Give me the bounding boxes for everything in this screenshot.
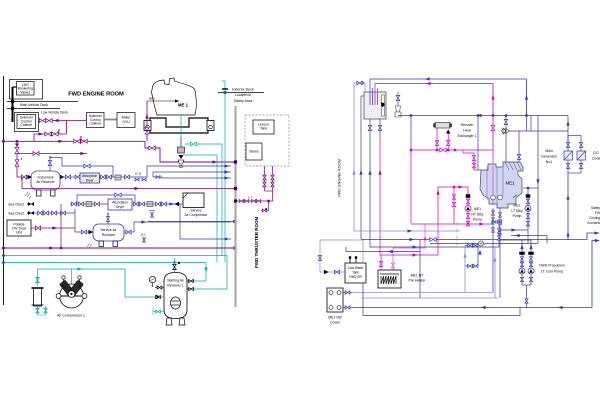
receiver gauge xyxy=(149,276,155,282)
svg-text:Cool Water: Cool Water xyxy=(348,266,365,270)
wire potable unit line xyxy=(31,227,75,229)
svg-text:Safety Area: Safety Area xyxy=(234,99,253,103)
box Boiler GVU xyxy=(117,113,135,128)
compressor suction valve xyxy=(36,277,40,282)
wire blue drop x526 xyxy=(526,79,528,116)
svg-text:Receiver: Receiver xyxy=(102,233,116,237)
wire magenta loop y150 xyxy=(411,149,493,151)
hx pump xyxy=(446,130,451,134)
wire propulsion suction up arrows xyxy=(478,250,481,255)
expansion tank xyxy=(364,92,386,119)
generator cooler columns xyxy=(567,116,569,143)
pumps FWD Propulsion LT Cool xyxy=(499,239,531,241)
wire engine right xyxy=(523,187,538,189)
receiver left bottom valve xyxy=(153,311,164,313)
wire blue return y251.5 xyxy=(346,247,420,252)
svg-text:Cabinet: Cabinet xyxy=(21,123,32,127)
plate cooler ME1 SW Cooler xyxy=(327,288,343,312)
svg-text:Air Compressor 1: Air Compressor 1 xyxy=(57,314,85,318)
drain funnel xyxy=(178,160,184,164)
wire row y153 to dryers xyxy=(17,153,87,155)
svg-text:Low Vehicle Deck: Low Vehicle Deck xyxy=(41,110,68,114)
boundary dash-dot xyxy=(456,222,458,247)
dashed safety area box xyxy=(245,115,289,166)
wire purple main header y141 xyxy=(2,140,146,142)
wire thermo valve column x506 xyxy=(505,116,507,164)
pump ME1 HT Stby xyxy=(467,187,469,224)
wire purple row y221 xyxy=(148,221,236,223)
svg-text:Main: Main xyxy=(545,149,553,153)
svg-text:FWD ER: FWD ER xyxy=(349,275,362,279)
wire compressor outlet xyxy=(170,203,183,205)
receiver top valve xyxy=(174,258,176,273)
svg-text:FWD ENGINE ROOM: FWD ENGINE ROOM xyxy=(337,159,342,197)
svg-text:Heat: Heat xyxy=(463,129,470,133)
receiver top valve xyxy=(49,158,51,171)
heat exchanger Recover Heat Exchanger 1 xyxy=(435,123,450,129)
wire thruster valves col1 xyxy=(264,166,266,191)
svg-text:Cooler: Cooler xyxy=(592,157,600,161)
receiver manhole xyxy=(171,297,181,309)
svg-text:Air Receiver: Air Receiver xyxy=(36,180,55,184)
svg-text:DO: DO xyxy=(593,151,599,155)
svg-text:Dryer: Dryer xyxy=(116,205,125,209)
wire pink vert x425 xyxy=(393,224,425,262)
wire cyan vertical x222 xyxy=(221,144,223,256)
svg-text:Kondens: Kondens xyxy=(587,221,600,225)
svg-text:FWD ENGINE ROOM: FWD ENGINE ROOM xyxy=(68,92,124,98)
wire cyan compressor discharge xyxy=(38,269,154,297)
engine side mounts xyxy=(144,121,151,131)
svg-text:Tank: Tank xyxy=(260,127,267,131)
svg-text:Dryer: Dryer xyxy=(86,178,95,182)
engine internal pipes xyxy=(486,166,488,200)
svg-text:GVU: GVU xyxy=(122,120,130,124)
wire pump discharge xyxy=(526,285,528,308)
svg-text:ME1: ME1 xyxy=(474,207,481,211)
wire thruster header y201 xyxy=(236,200,273,202)
wire periwinkle bottom y292 xyxy=(352,292,493,294)
wire cyan header y262 xyxy=(2,262,207,264)
wire magenta y224 xyxy=(411,223,494,225)
wire thermo valve branch y131 xyxy=(509,130,568,132)
receiver drain squiggle xyxy=(25,192,31,199)
wire magenta vert x411 down xyxy=(410,150,412,223)
receiver feet xyxy=(37,190,42,196)
wire blue vert x420 xyxy=(419,240,421,299)
left border line xyxy=(3,76,5,305)
cooler outlet valves xyxy=(343,292,352,294)
svg-text:Pump: Pump xyxy=(473,218,482,222)
svg-text:Instrument: Instrument xyxy=(37,175,53,179)
svg-text:ME1: ME1 xyxy=(505,181,515,186)
svg-text:HT Stby: HT Stby xyxy=(471,212,483,216)
service receiver feet xyxy=(99,241,104,247)
svg-text:Cabinet: Cabinet xyxy=(90,122,101,126)
service receiver inlet xyxy=(75,231,93,233)
svg-text:Main Vehicle Deck: Main Vehicle Deck xyxy=(20,103,48,107)
valve stack x499 xyxy=(498,225,500,247)
hx Main Generator cooler 1 xyxy=(564,151,573,160)
wire sea chest service line xyxy=(34,212,75,214)
wire cabinet2 to boiler GVU xyxy=(104,119,117,121)
wire cyan engine air line right xyxy=(185,143,222,145)
aux relief x152 xyxy=(151,213,154,217)
receiver feet xyxy=(166,318,172,325)
wire magenta top header y83.5 xyxy=(375,83,493,85)
wire cyan drop to receiver right lower xyxy=(194,256,227,290)
wire periwinkle bottom y298 xyxy=(361,297,498,299)
box Absorption Dryer 1 xyxy=(80,173,100,183)
svg-text:Generator: Generator xyxy=(541,155,558,159)
wall junction y162 xyxy=(234,160,237,163)
box ME1 HT Pre Heater xyxy=(378,270,401,288)
wire cyan header y255 xyxy=(2,255,228,257)
svg-text:Sea Chest: Sea Chest xyxy=(8,203,23,207)
svg-text:Air Compressor: Air Compressor xyxy=(185,213,209,217)
wire purple vert x61 xyxy=(60,204,62,248)
receiver inlet xyxy=(17,176,31,178)
pump ME1 LT Stby xyxy=(527,188,529,230)
svg-text:Service Air: Service Air xyxy=(100,228,117,232)
relief funnel column xyxy=(397,92,399,116)
svg-text:10 1: 10 1 xyxy=(140,233,146,237)
wire blue bottom y315 xyxy=(363,283,520,316)
wire bypass column x454 xyxy=(453,187,455,224)
engine ME1 left outline xyxy=(152,78,197,115)
svg-text:FWD THRUSTER ROOM: FWD THRUSTER ROOM xyxy=(254,217,259,268)
engine bottom pipes xyxy=(492,208,494,293)
svg-text:Safety: Safety xyxy=(591,206,600,210)
box Stores xyxy=(246,143,262,160)
air filter tank xyxy=(34,288,42,306)
service receiver drain xyxy=(87,243,92,248)
hx drop valves xyxy=(436,128,438,150)
svg-text:LT Stby: LT Stby xyxy=(511,209,523,213)
wire cyan exterior deck vent xyxy=(222,81,225,263)
wire blue y239 segment xyxy=(180,204,231,239)
box Solenoid Control Cabinet 2 xyxy=(87,113,105,128)
wire purple header steps down to thruster room xyxy=(145,141,236,162)
wire purple row y134 xyxy=(34,133,67,135)
wire to wall arrows row1 xyxy=(147,166,231,177)
wire engine drain down xyxy=(180,115,182,147)
wire blue bottom y308 xyxy=(352,307,592,309)
hx DO cooler box xyxy=(577,151,586,160)
wire magenta engine left header xyxy=(438,186,468,188)
svg-text:Pre Heater: Pre Heater xyxy=(409,279,427,283)
LNG bunkering container box xyxy=(10,80,43,100)
wire blue left vertical x361 xyxy=(360,96,362,239)
service receiver top valve xyxy=(107,215,109,224)
wire purple row y248 xyxy=(2,247,237,249)
receiver left check inlet xyxy=(153,296,164,298)
svg-text:Receiver 1: Receiver 1 xyxy=(167,284,183,288)
receiver right nozzle 1 xyxy=(187,280,194,282)
receiver left nozzle 1 xyxy=(155,287,164,289)
svg-text:No1: No1 xyxy=(546,160,552,164)
tank Starting Air Receiver 1 xyxy=(164,273,187,319)
3way valve and bowties mid xyxy=(478,241,483,246)
wire cyan line y155 xyxy=(183,154,217,156)
tank Service Air Receiver xyxy=(93,224,124,241)
wall fwd thruster room xyxy=(234,106,236,307)
svg-text:10 10: 10 10 xyxy=(135,172,142,176)
svg-text:Cooling: Cooling xyxy=(589,216,600,220)
svg-text:9 7: 9 7 xyxy=(248,196,252,200)
Main Vehicle Deck line xyxy=(7,101,78,103)
wire dryer1 inlet xyxy=(75,176,80,178)
drain filter box xyxy=(178,147,185,153)
wire blue drop x411 xyxy=(410,116,412,151)
drain check valve xyxy=(179,155,184,159)
service receiver outlet xyxy=(124,231,134,233)
box LNG Bunkering Valves xyxy=(17,82,35,96)
instrument air feed vertical xyxy=(16,141,18,177)
box Absorption Dryer 2 xyxy=(108,199,132,210)
svg-text:ME1 HT: ME1 HT xyxy=(411,274,425,278)
wire thruster join y191 xyxy=(265,190,273,192)
wire magenta vert x438 xyxy=(437,187,439,255)
svg-text:MDO: MDO xyxy=(149,97,155,101)
dryer1 bypass loop xyxy=(50,158,113,178)
wire magenta y255 xyxy=(380,254,438,256)
wire generator return xyxy=(567,173,569,240)
svg-text:Exchanger 1: Exchanger 1 xyxy=(457,134,476,138)
tank level gauge xyxy=(382,95,385,116)
wire mid headers with arrows xyxy=(354,230,460,232)
wire vertical arrows bundle xyxy=(352,170,355,175)
svg-text:Cooler: Cooler xyxy=(330,321,341,325)
svg-text:LT Cool Pump: LT Cool Pump xyxy=(541,270,563,274)
wire magenta drop to engine left xyxy=(463,150,481,170)
wire cool water tank feed xyxy=(320,240,345,272)
wire tank drain valves xyxy=(369,119,371,135)
tank top fittings xyxy=(349,257,351,263)
air compressor 1 icon xyxy=(71,269,73,285)
svg-text:Sea Chest: Sea Chest xyxy=(8,212,23,216)
svg-text:Recover: Recover xyxy=(461,123,474,127)
wire right edge vertical xyxy=(592,241,599,308)
wire purple MDO supply vertical xyxy=(146,101,148,141)
wire solenoid1 to solenoid2 xyxy=(39,120,87,122)
svg-text:ME1 SW: ME1 SW xyxy=(328,316,342,320)
svg-text:Exterior Deck: Exterior Deck xyxy=(232,88,254,92)
tank vent valve xyxy=(354,83,365,92)
engine top connections xyxy=(477,116,479,171)
filter drain valves xyxy=(36,308,39,313)
svg-text:Located in: Located in xyxy=(235,93,252,97)
svg-text:FW: FW xyxy=(595,211,600,215)
svg-text:Tank: Tank xyxy=(352,271,359,275)
cooler outlet valves xyxy=(567,160,569,173)
box Solenoid Control Cabinet 1 xyxy=(17,115,36,129)
svg-text:Unit: Unit xyxy=(16,230,22,234)
wire magenta drop x493 xyxy=(492,84,494,151)
svg-text:Starting Air: Starting Air xyxy=(167,279,184,283)
engine base xyxy=(150,118,208,133)
service air bypass xyxy=(77,195,135,204)
wire service dryer row xyxy=(70,203,180,205)
preheater feed valves xyxy=(380,255,382,270)
tank Instrument Air Receiver xyxy=(31,171,60,190)
svg-text:Valves: Valves xyxy=(20,90,30,94)
engine ME1 right xyxy=(480,162,523,208)
receiver right nozzle 2 xyxy=(187,288,194,290)
box Service Air Compressor xyxy=(183,193,204,208)
wire thruster valves col2 xyxy=(272,166,274,201)
box Potable FW Treat Unit xyxy=(7,220,31,236)
wire periwinkle left vertical xyxy=(353,83,355,231)
wire dryer1 outlet xyxy=(100,176,148,178)
svg-text:ME 1: ME 1 xyxy=(178,103,189,108)
solenoid cabinet outer box xyxy=(15,113,39,132)
wire purple under line y188.5 xyxy=(22,177,236,189)
svg-text:ME1: ME1 xyxy=(514,204,521,208)
LNG pipe thick xyxy=(12,87,14,122)
wire cyan drop to receiver right upper xyxy=(194,263,206,282)
wire blue top header y79 xyxy=(370,78,527,80)
wire right edge loop xyxy=(538,239,587,241)
receiver outlet arrow xyxy=(60,175,65,179)
box Leecon Tank xyxy=(253,120,274,134)
box Cool Water Tank FWD ER xyxy=(345,263,366,283)
tank inlet pipes xyxy=(369,79,371,105)
Low Vehicle Deck line xyxy=(7,108,60,110)
wire blue main header y115.5 xyxy=(398,115,568,117)
svg-text:Pump: Pump xyxy=(513,214,522,218)
svg-text:Stores: Stores xyxy=(249,150,259,154)
exterior deck line xyxy=(218,92,264,94)
wire thruster drain stub xyxy=(261,201,269,211)
svg-text:FWD Propulsion: FWD Propulsion xyxy=(539,264,565,268)
